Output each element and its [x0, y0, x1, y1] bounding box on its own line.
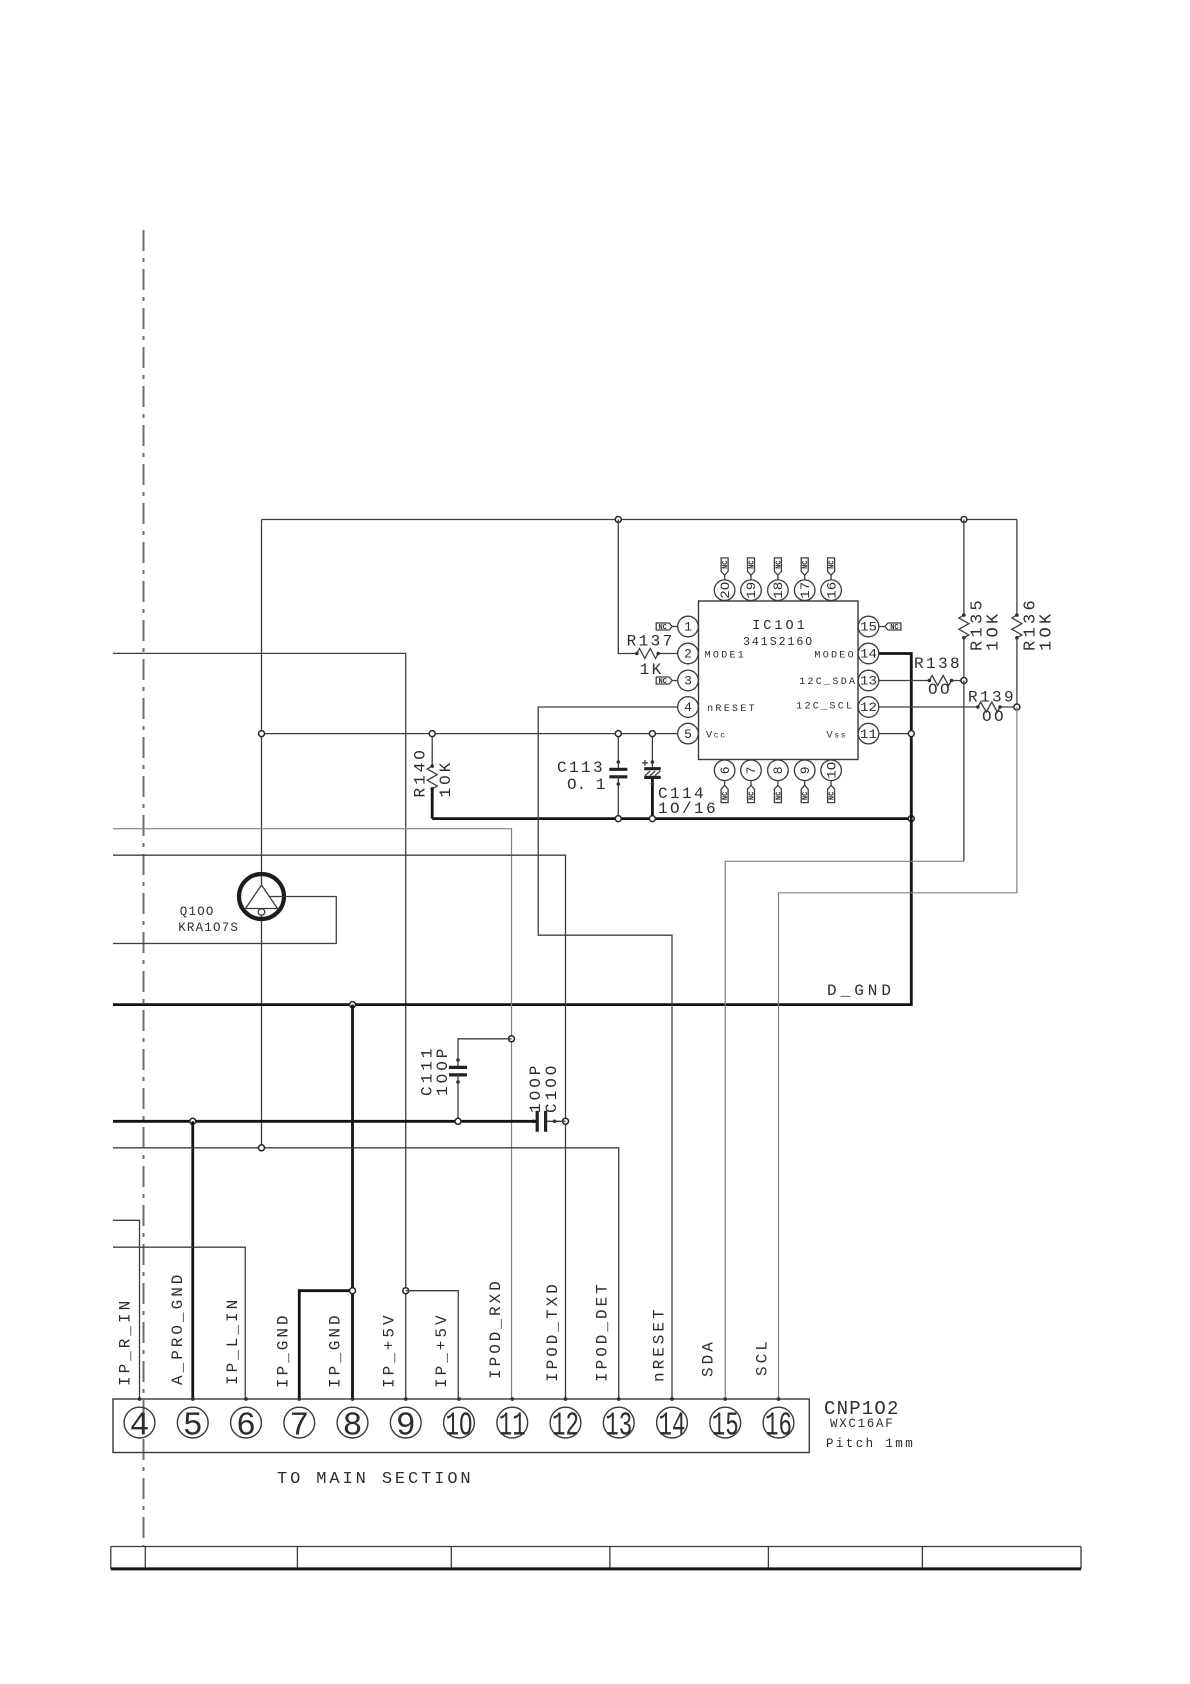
wire R140 bottom lead to ground: [431, 789, 434, 819]
svg-text:IPOD_RXD: IPOD_RXD: [487, 1278, 505, 1379]
wire IPOD_TXD from left edge to connector pin 12: [113, 855, 566, 1399]
node Vss junction: [908, 731, 914, 737]
wire IC pin 11 Vss to ground vertical: [879, 733, 912, 735]
pin 2 of IC101: [678, 643, 699, 664]
pin 9 of CNP102: [390, 1407, 421, 1438]
svg-text:OO: OO: [928, 681, 952, 699]
node D_GND to IP_GND branch: [350, 1002, 356, 1008]
svg-text:SCL: SCL: [754, 1338, 772, 1376]
wire C113 top lead: [617, 737, 619, 768]
svg-text:TO MAIN SECTION: TO MAIN SECTION: [277, 1470, 474, 1489]
NC flag of pin 3: [656, 677, 672, 684]
node ground at MODE0 vertical: [908, 816, 914, 822]
svg-text:IP_GND: IP_GND: [327, 1312, 345, 1388]
NC flag of pin 20: [721, 558, 728, 575]
pin 5 of IC101: [678, 723, 699, 744]
svg-text:R138: R138: [914, 655, 962, 673]
wire C114 bottom lead to ground: [651, 779, 654, 819]
pin 7 of IC101: [741, 760, 762, 781]
node Vcc rail to R135 branch: [961, 517, 967, 523]
svg-text:NC: NC: [658, 624, 666, 632]
svg-text:13: 13: [605, 1408, 632, 1445]
node A_PRO_GND to connector pin 5: [190, 1118, 196, 1124]
svg-text:2: 2: [684, 647, 692, 662]
resistor R135: [959, 615, 969, 638]
svg-text:Vcc: Vcc: [706, 729, 727, 741]
svg-text:1: 1: [684, 620, 692, 635]
svg-text:IC1O1: IC1O1: [752, 619, 808, 634]
pin 13 of CNP102: [603, 1407, 634, 1438]
wire IC pin 12 to R139: [879, 706, 978, 708]
svg-text:2O: 2O: [718, 581, 733, 598]
pin 16 of CNP102: [763, 1407, 794, 1438]
svg-text:1O: 1O: [446, 1408, 473, 1445]
pin 3 of IC101: [678, 670, 699, 691]
wire C111 branch: [458, 1039, 512, 1066]
pin 10 of CNP102: [444, 1407, 475, 1438]
svg-text:19: 19: [744, 582, 759, 599]
svg-text:WXC16AF: WXC16AF: [830, 1417, 894, 1431]
wire R135 bottom lead: [963, 638, 965, 681]
wire R139 to SCL node: [1000, 706, 1017, 708]
svg-text:12: 12: [552, 1408, 579, 1445]
capacitor C111: [449, 1066, 467, 1069]
resistor R136: [1012, 615, 1022, 638]
pin 11 of IC101: [858, 723, 879, 744]
wire IP_GND branch to connector pin 7: [299, 1291, 352, 1399]
pin 14 of CNP102: [657, 1407, 688, 1438]
svg-text:1O/16: 1O/16: [658, 800, 718, 818]
title block strip: [111, 1547, 1081, 1569]
wire R138 to SDA node: [952, 680, 964, 682]
svg-text:Vss: Vss: [826, 729, 847, 741]
svg-text:IPOD_DET: IPOD_DET: [594, 1281, 612, 1382]
svg-text:4: 4: [130, 1408, 150, 1445]
board boundary dash-dot line: [143, 230, 145, 1546]
svg-text:8: 8: [343, 1408, 363, 1445]
svg-text:A_PRO_GND: A_PRO_GND: [169, 1272, 187, 1385]
wire IPOD_RXD from left edge to connector pin 11: [113, 829, 512, 1399]
svg-text:R14O: R14O: [411, 747, 429, 797]
pin 5 of CNP102: [177, 1407, 208, 1438]
svg-text:IP_+5V: IP_+5V: [433, 1312, 451, 1388]
svg-text:NC: NC: [775, 792, 783, 800]
svg-text:341S216O: 341S216O: [743, 636, 814, 649]
node IPOD_TXD to C100 branch: [563, 1118, 569, 1124]
wire Vcc row to IC pin 5: [262, 733, 678, 735]
resistor R137: [637, 649, 658, 659]
svg-text:OO: OO: [982, 708, 1006, 726]
pin 6 of IC101: [714, 760, 735, 781]
wire IC pin 13 to R138: [879, 680, 930, 682]
svg-text:1O: 1O: [824, 762, 839, 779]
pin 13 of IC101: [858, 670, 879, 691]
wire R135 top lead: [963, 520, 965, 616]
pin 9 of IC101: [794, 760, 815, 781]
resistor R139: [978, 702, 1000, 712]
node Vcc row at R140: [429, 731, 435, 737]
wire Q100 collector lead down to IPOD_DET: [261, 915, 263, 1148]
wire IC pin 14 MODE0 to ground: [879, 654, 912, 819]
NC flag of pin 10: [828, 785, 835, 802]
NC flag of pin 6: [721, 785, 728, 802]
svg-text:NC: NC: [802, 560, 810, 568]
svg-text:NC: NC: [802, 792, 810, 800]
pin 18 of IC101: [768, 580, 789, 601]
svg-text:NC: NC: [890, 624, 898, 632]
wire Vcc left vertical to Q100 base: [261, 520, 263, 886]
svg-text:1OK: 1OK: [437, 760, 455, 798]
capacitor C113: [609, 768, 627, 770]
svg-text:D_GND: D_GND: [827, 982, 895, 1000]
wire D_GND main bus: [113, 819, 911, 1005]
node Vcc rail to R137 branch: [615, 517, 621, 523]
wire IP_+5V from left edge: [113, 653, 406, 1399]
svg-text:C113: C113: [557, 759, 605, 777]
node SCL junction: [1014, 704, 1020, 710]
svg-text:14: 14: [659, 1408, 686, 1445]
NC flag of pin 1: [656, 623, 672, 630]
wire R136 top lead: [1016, 520, 1018, 616]
svg-text:NC: NC: [722, 560, 730, 568]
wire C100 right lead: [547, 1120, 566, 1122]
svg-text:12C_SCL: 12C_SCL: [796, 702, 854, 713]
NC flag of pin 16: [828, 558, 835, 575]
wire IP_GND thick vertical to connector pin 8: [351, 1005, 354, 1399]
wire IP_L_IN from left edge to connector pin 6: [113, 1247, 245, 1399]
wire A_PRO_GND thick row: [113, 1120, 536, 1123]
svg-text:MODEO: MODEO: [814, 651, 856, 662]
wire R140 top lead: [431, 737, 433, 766]
wire nRESET from IC pin 4 to connector pin 14: [538, 707, 678, 1399]
svg-text:9: 9: [396, 1408, 416, 1445]
svg-text:11: 11: [860, 727, 877, 742]
pin 14 of IC101: [858, 643, 879, 664]
wire IPOD_DET from left edge to connector pin 13: [113, 1148, 619, 1399]
wire IP_+5V branch to pin 10: [406, 1291, 459, 1399]
pin 1 of IC101: [678, 616, 699, 637]
node Vcc row at C114: [649, 731, 655, 737]
wire A_PRO_GND thick vertical to connector pin 5: [191, 1121, 194, 1399]
pin 10 of IC101: [821, 760, 842, 781]
transistor Q100: [239, 874, 284, 919]
svg-text:7: 7: [744, 766, 759, 774]
svg-text:R139: R139: [968, 689, 1016, 707]
wire R137 to IC pin 2: [658, 653, 678, 655]
wire C113 bottom lead: [617, 777, 619, 819]
pin 17 of IC101: [794, 580, 815, 601]
pin 11 of CNP102: [497, 1407, 528, 1438]
svg-text:IP_+5V: IP_+5V: [381, 1312, 399, 1388]
pin 15 of CNP102: [710, 1407, 741, 1438]
NC flag of pin 8: [774, 785, 781, 802]
pin 12 of IC101: [858, 697, 879, 718]
pin 6 of CNP102: [231, 1407, 262, 1438]
svg-text:NC: NC: [658, 678, 666, 686]
resistor R140: [427, 766, 437, 789]
NC flag of pin 19: [748, 558, 755, 575]
wire C114 top lead: [651, 737, 653, 767]
node SDA junction: [961, 678, 967, 684]
svg-text:IP_R_IN: IP_R_IN: [117, 1298, 135, 1386]
pin 20 of IC101: [714, 580, 735, 601]
NC flag of pin 7: [748, 785, 755, 802]
svg-text:NC: NC: [775, 560, 783, 568]
pin 7 of CNP102: [284, 1407, 315, 1438]
node IPOD_RXD to C111 branch: [509, 1036, 515, 1042]
svg-text:16: 16: [765, 1408, 792, 1445]
connector CNP102 body: [113, 1399, 809, 1453]
svg-text:1K: 1K: [640, 661, 664, 679]
NC flag of pin 15: [885, 623, 901, 630]
pin 4 of IC101: [678, 697, 699, 718]
pin 15 of IC101: [858, 616, 879, 637]
node Vcc row at left vertical: [259, 731, 265, 737]
svg-text:3: 3: [684, 674, 692, 689]
pin 8 of IC101: [768, 760, 789, 781]
capacitor C114 polarized: [644, 767, 661, 770]
svg-text:1OK: 1OK: [1037, 610, 1056, 651]
resistor R138: [929, 676, 951, 686]
svg-text:Pitch 1mm: Pitch 1mm: [826, 1437, 915, 1451]
pin 19 of IC101: [741, 580, 762, 601]
svg-text:16: 16: [824, 582, 839, 599]
pin 12 of CNP102: [550, 1407, 581, 1438]
node A_PRO_GND at C111: [455, 1118, 461, 1124]
wire Vcc top rail: [262, 519, 1017, 521]
svg-text:5: 5: [183, 1408, 203, 1445]
svg-text:12: 12: [860, 700, 877, 715]
wire C111 bottom lead: [457, 1075, 459, 1121]
svg-text:IP_GND: IP_GND: [274, 1312, 292, 1388]
svg-text:18: 18: [771, 582, 786, 599]
node IPOD_DET at Q100 vertical: [259, 1145, 265, 1151]
node IP_GND pins 7-8 junction: [350, 1288, 356, 1294]
node ground at C114: [649, 816, 655, 822]
NC flag of pin 9: [801, 785, 808, 802]
svg-text:13: 13: [860, 674, 877, 689]
svg-text:R137: R137: [627, 633, 675, 651]
svg-text:1OK: 1OK: [984, 610, 1003, 651]
svg-text:SDA: SDA: [700, 1339, 718, 1377]
node Vcc row at C113: [615, 731, 621, 737]
svg-text:C1OO: C1OO: [543, 1063, 561, 1113]
svg-text:NC: NC: [748, 792, 756, 800]
svg-text:15: 15: [712, 1408, 739, 1445]
svg-text:NC: NC: [829, 792, 837, 800]
wire IP_R_IN from left edge to connector pin 4: [113, 1220, 140, 1399]
svg-text:Q1OO: Q1OO: [180, 905, 215, 919]
svg-text:11: 11: [499, 1408, 526, 1445]
svg-text:5: 5: [684, 727, 692, 742]
svg-text:8: 8: [771, 766, 786, 774]
svg-text:17: 17: [798, 582, 813, 599]
polarity plus sign of C114: [642, 760, 648, 766]
svg-text:nRESET: nRESET: [651, 1306, 669, 1382]
wire D_GND thick row under IC: [432, 817, 911, 820]
svg-text:6: 6: [236, 1408, 256, 1445]
wire R137 branch: [618, 520, 637, 654]
svg-text:9: 9: [798, 766, 813, 774]
svg-text:O. 1: O. 1: [567, 776, 605, 794]
svg-text:NC: NC: [748, 560, 756, 568]
svg-text:nRESET: nRESET: [707, 704, 757, 715]
svg-text:14: 14: [860, 647, 877, 662]
svg-text:12C_SDA: 12C_SDA: [799, 677, 857, 688]
node IP_+5V pins 9-10 junction: [403, 1288, 409, 1294]
svg-text:1OOP: 1OOP: [434, 1046, 452, 1096]
svg-text:IPOD_TXD: IPOD_TXD: [544, 1281, 562, 1382]
wire R136 bottom lead: [1016, 638, 1018, 707]
svg-text:MODE1: MODE1: [705, 651, 747, 662]
node ground at C113: [615, 816, 621, 822]
pin 8 of CNP102: [337, 1407, 368, 1438]
svg-text:7: 7: [289, 1408, 309, 1445]
svg-text:NC: NC: [829, 560, 837, 568]
wire SDA to connector pin 15: [963, 681, 965, 862]
svg-text:15: 15: [860, 620, 877, 635]
wire Q100 emitter loop: [113, 897, 336, 944]
svg-text:NC: NC: [722, 792, 730, 800]
svg-text:4: 4: [684, 700, 692, 715]
capacitor C100: [536, 1111, 539, 1132]
svg-text:6: 6: [718, 766, 733, 774]
pin 4 of CNP102: [124, 1407, 155, 1438]
svg-text:KRA1O7S: KRA1O7S: [178, 921, 239, 935]
wire SCL to connector pin 16: [779, 707, 1017, 1399]
NC flag of pin 18: [774, 558, 781, 575]
svg-text:IP_L_IN: IP_L_IN: [224, 1297, 242, 1385]
op-amp U IC101 body: [699, 601, 859, 760]
NC flag of pin 17: [801, 558, 808, 575]
pin 16 of IC101: [821, 580, 842, 601]
